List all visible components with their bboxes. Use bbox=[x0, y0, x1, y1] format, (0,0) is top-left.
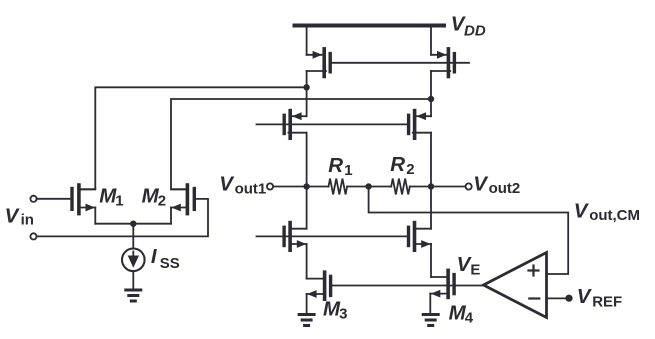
wire: left branch P3 drain to N1 drain (through Vout1 line) bbox=[306, 133, 308, 229]
wire: M4 source to ground bbox=[429, 294, 431, 313]
wire: Vout1 terminal to left branch bbox=[273, 186, 306, 188]
transistor P4 (PMOS cascode, right) bbox=[409, 111, 431, 139]
wire: centre node to op-amp + input (Vout,CM sense) bbox=[369, 187, 569, 275]
label Vin bbox=[5, 204, 34, 228]
svg-text:E: E bbox=[470, 262, 480, 279]
wire: P2 source to VDD rail bbox=[430, 25, 432, 55]
svg-text:V: V bbox=[574, 199, 590, 222]
wire to R1 bbox=[307, 186, 329, 188]
VDD rail bbox=[295, 24, 445, 28]
label VREF bbox=[577, 285, 622, 310]
transistor P3 (PMOS cascode, left) bbox=[284, 111, 306, 139]
wire R1 to centre node bbox=[347, 186, 369, 188]
wire: P2 drain down to node Y and P4 source bbox=[430, 71, 432, 116]
bias line of P3/P4 gates bbox=[257, 123, 408, 125]
resistor R1 bbox=[329, 179, 348, 195]
svg-text:DD: DD bbox=[464, 22, 486, 39]
resistor R2 bbox=[391, 179, 410, 195]
wire: op-amp minus input to VREF bbox=[547, 297, 567, 299]
label M4 bbox=[449, 301, 474, 326]
label M1 bbox=[99, 184, 123, 209]
svg-text:V: V bbox=[577, 285, 593, 308]
wire: M3 source to ground bbox=[306, 294, 308, 313]
svg-text:V: V bbox=[219, 173, 235, 196]
wire: top input to M1 gate bbox=[37, 198, 71, 200]
ground (M4) bbox=[423, 315, 438, 326]
wire R2 to right branch bbox=[410, 186, 431, 188]
centre node junction dot bbox=[365, 183, 371, 189]
transistor M4 bbox=[430, 270, 454, 297]
wire: N2 source down to M4 drain bbox=[430, 244, 432, 277]
terminal Vin- (bottom input) bbox=[30, 233, 36, 239]
wire: right branch P4 drain to N2 drain (through Vout2 line) bbox=[430, 133, 432, 229]
transistor N2 (NMOS cascode, right) bbox=[409, 223, 432, 251]
transistor M3 bbox=[307, 272, 331, 299]
svg-text:in: in bbox=[21, 212, 34, 229]
wire: tail to ISS bbox=[132, 224, 134, 249]
svg-text:REF: REF bbox=[592, 294, 622, 311]
svg-text:V: V bbox=[473, 172, 489, 195]
junction dot Vout1/left branch bbox=[303, 183, 309, 189]
transistor P2 (PMOS current source, right) bbox=[431, 49, 454, 77]
wire: M2 source down to common source bbox=[170, 208, 172, 224]
svg-text:2: 2 bbox=[406, 161, 414, 178]
label Vout2 bbox=[473, 172, 520, 197]
label Vout,CM bbox=[574, 199, 640, 224]
terminal Vout2 bbox=[466, 183, 472, 189]
transistor M1 bbox=[72, 185, 95, 214]
terminal Vout1 bbox=[267, 183, 273, 189]
svg-text:R: R bbox=[390, 153, 405, 176]
gate line M3/M4 to op-amp output bbox=[332, 285, 483, 287]
wire: bottom input to M2 gate bbox=[37, 199, 208, 237]
gate link line of P1/P2 bbox=[332, 62, 469, 64]
current source ISS bbox=[122, 248, 145, 271]
common source wire bbox=[95, 223, 171, 225]
label VDD bbox=[451, 12, 486, 39]
label Vout1 bbox=[219, 173, 266, 198]
label M3 bbox=[323, 297, 347, 322]
label R2 bbox=[390, 153, 414, 178]
transistor P1 (PMOS current source, left) bbox=[307, 49, 331, 77]
wire centre node to R2 bbox=[369, 186, 392, 188]
op-amp U1 (CMFB error amplifier) bbox=[484, 253, 547, 318]
terminal Vin+ (top input) bbox=[30, 196, 36, 202]
label ISS bbox=[151, 245, 180, 272]
wire: ISS to ground bbox=[132, 271, 134, 288]
ground (ISS) bbox=[126, 290, 141, 301]
wire: M2 drain to node Y bbox=[171, 99, 431, 189]
svg-text:I: I bbox=[151, 245, 158, 268]
transistor M2 bbox=[171, 185, 194, 214]
svg-text:out,CM: out,CM bbox=[589, 207, 640, 224]
svg-text:out2: out2 bbox=[489, 180, 521, 197]
svg-text:1: 1 bbox=[344, 162, 352, 179]
node Y junction dot bbox=[428, 96, 434, 102]
svg-text:V: V bbox=[5, 204, 21, 227]
wire right branch to Vout2 terminal bbox=[431, 186, 466, 188]
wire: M1 drain to node X bbox=[81, 87, 307, 189]
node X junction dot bbox=[303, 84, 309, 90]
svg-text:2: 2 bbox=[158, 193, 166, 210]
svg-text:1: 1 bbox=[115, 193, 123, 210]
svg-text:4: 4 bbox=[465, 310, 474, 327]
terminal VREF (filled dot) bbox=[565, 295, 572, 302]
junction dot Vout2/right branch bbox=[428, 183, 434, 189]
transistor N1 (NMOS cascode, left) bbox=[284, 223, 307, 251]
svg-text:SS: SS bbox=[160, 255, 180, 272]
wire: N1 source down to M3 drain bbox=[306, 244, 308, 279]
bias line of N1/N2 gates bbox=[257, 235, 410, 237]
svg-text:R: R bbox=[328, 154, 343, 177]
label VE bbox=[457, 253, 481, 278]
ground (M3) bbox=[299, 315, 314, 326]
svg-text:3: 3 bbox=[339, 306, 347, 323]
wire: P1 drain down to node X and P3 source bbox=[306, 71, 308, 116]
common source junction dot bbox=[130, 221, 136, 227]
wire: P1 source to VDD rail bbox=[306, 25, 308, 55]
wire: M1 source down to common source bbox=[94, 208, 96, 224]
label M2 bbox=[142, 184, 166, 209]
svg-text:out1: out1 bbox=[235, 180, 267, 197]
label R1 bbox=[328, 154, 352, 179]
